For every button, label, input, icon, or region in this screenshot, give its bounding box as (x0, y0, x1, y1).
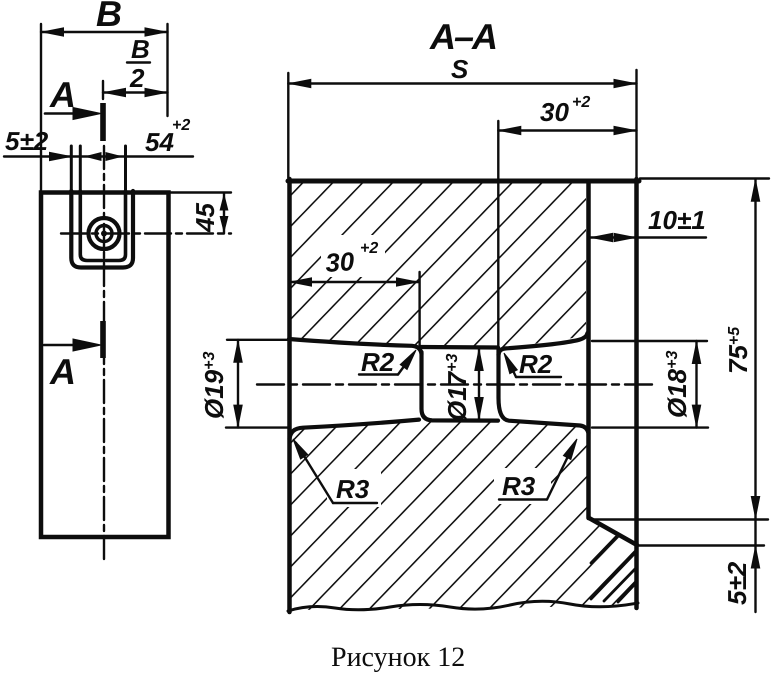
svg-text:+2: +2 (572, 94, 590, 111)
hole center dot (101, 231, 107, 237)
svg-text:2: 2 (129, 63, 145, 93)
extra hatch strokes in step strip (591, 537, 635, 602)
slot inner profile (80, 191, 125, 261)
svg-text:Рисунок 12: Рисунок 12 (331, 642, 465, 673)
section arrow A bottom (44, 344, 88, 347)
svg-text:5±2: 5±2 (5, 126, 49, 156)
dimension Ø18 (592, 340, 707, 342)
svg-text:R3: R3 (336, 474, 370, 504)
outer right edge (634, 179, 639, 608)
left view body outline (41, 193, 169, 538)
svg-text:10±1: 10±1 (648, 205, 706, 235)
slot outer profile (71, 191, 133, 268)
svg-text:+2: +2 (172, 117, 190, 134)
hole outer circle (89, 218, 120, 249)
white clearance for 30+2 label (321, 235, 385, 277)
vertical centerline (103, 146, 105, 560)
dimension 75+5 (640, 177, 769, 179)
lower hatch block (291, 420, 636, 611)
svg-text:A: A (49, 74, 76, 115)
svg-text:Ø19+3: Ø19+3 (199, 352, 229, 420)
dimension 30+2 top (498, 129, 636, 131)
R3 right leader (499, 498, 547, 500)
horizontal centerline (61, 232, 231, 234)
hole inner circle (96, 226, 112, 242)
section arrow A top (45, 112, 88, 115)
dimension 5±2 right (592, 518, 768, 520)
dimension B (41, 24, 168, 190)
slot extension lines (71, 146, 125, 191)
bottom wavy line (288, 601, 638, 611)
svg-text:S: S (451, 54, 469, 84)
bore: throat top (420, 345, 498, 350)
upper hatch block (291, 183, 586, 349)
top edge (288, 179, 639, 184)
bore: right throat wall (499, 350, 589, 433)
white clearance for R3 right (494, 468, 551, 504)
svg-text:A: A (49, 351, 76, 392)
svg-text:30: 30 (540, 97, 569, 127)
svg-text:R2: R2 (519, 349, 553, 379)
svg-text:R2: R2 (361, 347, 395, 377)
white clearance for R3 left (327, 469, 381, 507)
R2 right leader (516, 376, 561, 378)
dimension Ø19 (227, 339, 290, 341)
svg-text:45: 45 (190, 203, 220, 233)
body right edge (586, 181, 591, 518)
dimension B/2 (103, 63, 168, 100)
dimension 45 (223, 194, 225, 234)
dimension 10±1 (590, 236, 706, 238)
bore centerline (257, 383, 654, 385)
bore: right channel top (499, 333, 588, 355)
dimension S (288, 82, 636, 84)
R2 left leader (359, 373, 398, 375)
svg-text:75+5: 75+5 (723, 326, 753, 374)
svg-text:R3: R3 (502, 471, 536, 501)
bore: left channel bottom (290, 420, 420, 439)
dimension 5±2 / 54+2 line (4, 155, 193, 157)
bore: left throat wall and throat bottom (422, 352, 499, 421)
left edge (287, 179, 292, 612)
svg-text:+2: +2 (360, 240, 378, 257)
svg-text:5±2: 5±2 (722, 561, 752, 605)
svg-text:54: 54 (145, 127, 174, 157)
dimension 30+2 left (289, 281, 419, 283)
dimension Ø17 (478, 348, 480, 420)
bore: left channel top (289, 339, 422, 354)
svg-text:B: B (131, 34, 150, 64)
svg-text:30: 30 (324, 246, 355, 278)
svg-text:A–A: A–A (429, 16, 496, 57)
svg-text:Ø17+3: Ø17+3 (442, 354, 472, 422)
R3 left leader (333, 502, 377, 504)
chamfer step (589, 518, 637, 545)
svg-text:Ø18+3: Ø18+3 (662, 351, 692, 419)
svg-text:B: B (96, 0, 122, 34)
top edge extension right (169, 191, 231, 193)
